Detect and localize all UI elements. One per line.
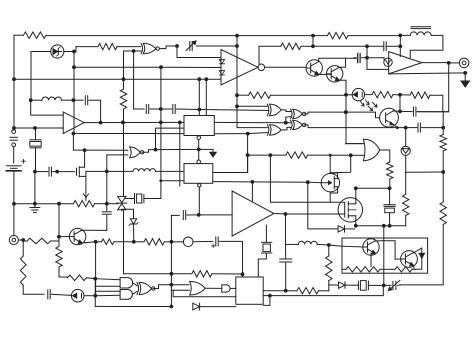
node — [463, 71, 467, 75]
wire — [57, 171, 74, 173]
node — [306, 180, 310, 184]
wire — [13, 204, 15, 236]
wire — [371, 253, 376, 266]
wire — [96, 241, 102, 243]
resistor R18 — [68, 275, 87, 281]
node — [72, 132, 76, 136]
node — [94, 240, 98, 244]
wire — [361, 57, 367, 59]
node — [382, 224, 386, 228]
wire — [405, 155, 407, 172]
wire — [337, 173, 339, 179]
node — [382, 284, 386, 288]
node — [398, 34, 402, 38]
wire — [14, 34, 24, 36]
wire — [339, 58, 345, 67]
node — [311, 34, 315, 38]
wire — [345, 228, 355, 230]
gate U8 xor — [270, 104, 282, 116]
ic U19 — [236, 277, 263, 304]
node — [159, 107, 163, 111]
wire — [304, 112, 345, 114]
wire — [170, 242, 172, 307]
ground GND1 — [464, 73, 466, 81]
wire — [282, 127, 291, 129]
inductor L5 — [298, 241, 317, 244]
wire — [51, 294, 71, 295]
wire — [449, 62, 460, 64]
gate U9 xor — [270, 125, 282, 135]
node — [344, 110, 348, 114]
node — [235, 44, 239, 48]
wire — [214, 133, 248, 135]
wire — [393, 94, 400, 96]
wire — [399, 35, 401, 46]
wire — [346, 94, 352, 96]
capacitor C11 — [417, 123, 419, 132]
resistor R7 — [73, 201, 94, 207]
wire — [355, 199, 357, 204]
wire — [171, 273, 191, 275]
wire — [79, 171, 86, 176]
wire — [58, 237, 60, 241]
wire — [133, 283, 137, 286]
node — [197, 108, 201, 112]
resistor R5 — [372, 91, 393, 97]
diac D4 — [118, 196, 126, 209]
capacitor C7 — [48, 167, 50, 176]
node — [121, 121, 125, 125]
wire — [123, 211, 125, 274]
wire — [376, 241, 396, 259]
wire — [84, 295, 95, 297]
wire — [133, 291, 137, 294]
wire — [236, 106, 238, 127]
node — [284, 212, 288, 216]
wire — [339, 80, 346, 95]
wire — [198, 135, 200, 137]
diode D11 — [339, 282, 345, 288]
scr D3 — [401, 146, 410, 155]
wire — [312, 36, 314, 47]
node — [251, 180, 255, 184]
wire — [31, 99, 42, 101]
wire — [389, 179, 391, 188]
node — [404, 126, 408, 130]
wire — [354, 57, 356, 59]
wire — [286, 122, 291, 124]
wire — [73, 133, 155, 135]
wire — [248, 133, 267, 134]
wire — [346, 143, 364, 145]
resistor R11 — [387, 162, 393, 179]
node — [159, 121, 163, 125]
resistor R22 — [326, 256, 332, 281]
wire — [400, 34, 410, 36]
wire — [400, 110, 412, 112]
node — [21, 238, 25, 242]
node — [441, 170, 445, 174]
wire — [205, 79, 207, 115]
wire — [173, 290, 236, 296]
wire — [85, 198, 87, 201]
wire — [31, 100, 64, 115]
ic box U20 — [342, 238, 428, 273]
crystal X4 — [262, 241, 272, 243]
resistor R3 — [281, 43, 301, 49]
wire — [126, 198, 135, 200]
node — [72, 98, 76, 102]
node — [105, 202, 109, 206]
node — [33, 126, 37, 130]
mosfet Q7 — [338, 198, 362, 222]
wire — [252, 181, 307, 183]
wire — [313, 35, 328, 37]
wire — [107, 154, 128, 156]
transistor Q2 — [327, 66, 343, 82]
connector J1 — [459, 58, 469, 68]
wire — [406, 171, 444, 173]
node — [246, 153, 250, 157]
wire — [367, 57, 384, 59]
node — [122, 77, 126, 81]
wire — [59, 267, 68, 277]
wire — [161, 108, 172, 110]
node — [388, 186, 392, 190]
led D7 — [71, 289, 84, 302]
capacitor C5 — [413, 107, 415, 116]
wire — [156, 128, 185, 150]
wire — [84, 121, 184, 123]
node — [175, 44, 179, 48]
pin — [198, 184, 201, 187]
diode D6 — [338, 226, 344, 232]
wire — [31, 51, 51, 53]
wire — [13, 171, 15, 204]
resistor R23 — [346, 267, 380, 272]
wire — [85, 149, 128, 151]
wire — [82, 229, 107, 231]
wire — [355, 188, 357, 199]
crystal X2 — [134, 194, 136, 204]
capacitor C14 — [47, 290, 49, 299]
wire — [346, 143, 363, 145]
wire — [64, 51, 74, 53]
wire — [72, 134, 74, 151]
wire — [237, 105, 267, 107]
wire — [34, 172, 36, 204]
resistor R25 — [249, 92, 271, 98]
ground GND2 — [34, 204, 36, 208]
wire — [58, 204, 60, 247]
diac D1 — [51, 45, 64, 58]
wire — [319, 73, 332, 75]
wire — [313, 45, 367, 47]
meter M1 — [183, 237, 193, 247]
wire — [123, 79, 125, 89]
node — [398, 110, 402, 114]
node — [388, 224, 392, 228]
wire — [337, 187, 339, 193]
resistor R19 — [20, 256, 26, 285]
wire — [14, 127, 63, 129]
node — [105, 170, 109, 174]
wire — [345, 95, 347, 144]
node — [197, 213, 201, 217]
node — [57, 235, 61, 239]
wire — [213, 181, 253, 183]
wire — [35, 171, 48, 173]
diode D8 — [193, 303, 200, 310]
or U12 — [363, 139, 379, 160]
wire — [142, 150, 155, 153]
node — [447, 61, 451, 65]
wire — [95, 203, 107, 205]
node — [398, 93, 402, 97]
wire — [171, 214, 179, 216]
node — [93, 294, 97, 298]
node — [354, 224, 358, 228]
wire — [319, 58, 346, 61]
wire — [442, 128, 444, 135]
wire — [383, 226, 385, 241]
node — [72, 65, 76, 69]
arrow — [83, 193, 88, 198]
wire — [384, 284, 391, 286]
wire — [161, 180, 184, 182]
wire — [264, 296, 270, 306]
wire — [351, 154, 364, 156]
wire — [117, 46, 140, 48]
capacitor C13 — [182, 211, 184, 220]
resistor R24 — [395, 267, 412, 272]
wire — [286, 243, 299, 245]
wire — [237, 94, 249, 96]
battery B1 — [6, 165, 21, 167]
wire — [355, 216, 357, 226]
resistor R6 — [410, 92, 430, 98]
ic U7 — [184, 164, 213, 184]
node — [241, 272, 245, 276]
node — [204, 77, 208, 81]
wire — [95, 279, 120, 280]
node — [235, 34, 239, 38]
wire — [74, 66, 161, 68]
wire — [187, 214, 199, 216]
wire — [248, 154, 271, 156]
wire — [123, 122, 125, 195]
wire — [170, 215, 172, 241]
node — [354, 186, 358, 190]
wire — [153, 285, 171, 289]
node — [132, 49, 136, 53]
wire — [346, 112, 380, 118]
node — [12, 77, 16, 81]
wire — [156, 148, 199, 150]
node — [235, 93, 239, 97]
node — [132, 240, 136, 244]
wire — [270, 285, 383, 295]
capacitor C15 — [280, 258, 292, 260]
wire — [258, 253, 266, 277]
wire — [160, 46, 177, 49]
wire — [197, 45, 238, 47]
wire — [412, 258, 422, 269]
wire — [134, 50, 141, 52]
wire — [107, 203, 118, 205]
resistor R13 — [144, 239, 164, 245]
resistor R20 — [192, 271, 212, 277]
wire — [198, 149, 200, 160]
node — [170, 240, 174, 244]
wire — [123, 195, 125, 198]
wire — [200, 306, 236, 308]
node — [327, 243, 331, 247]
capacitor C3 — [357, 53, 359, 62]
node — [170, 272, 174, 276]
wire — [59, 236, 69, 238]
wire — [106, 155, 108, 211]
node — [29, 98, 33, 102]
wire — [14, 78, 221, 80]
node — [349, 153, 353, 157]
wire — [259, 46, 281, 64]
transistor Q5 — [69, 228, 85, 244]
wire — [89, 100, 101, 122]
wire — [308, 182, 338, 229]
capacitor C6 — [84, 96, 86, 105]
gate U5 nor — [130, 147, 141, 158]
node — [159, 65, 163, 69]
wire — [179, 122, 181, 186]
wire — [73, 99, 83, 101]
wire — [442, 172, 444, 202]
wire — [73, 52, 75, 68]
wire — [22, 240, 24, 256]
node — [441, 126, 445, 130]
wire — [304, 125, 405, 128]
gate U11 xnor — [293, 120, 303, 129]
wire — [13, 128, 15, 130]
wire — [380, 150, 390, 162]
wire — [95, 305, 171, 307]
crystal X5 — [357, 281, 359, 290]
resistor R1 — [24, 32, 47, 38]
mosfet Q3 — [76, 168, 78, 175]
wire — [13, 35, 15, 128]
wire — [366, 46, 368, 57]
gate U10 xnor — [293, 109, 303, 118]
inductor L3 — [42, 97, 62, 100]
wire — [270, 154, 286, 156]
node — [99, 121, 103, 125]
wire — [237, 127, 267, 129]
wire — [263, 295, 270, 297]
wire — [356, 225, 406, 227]
node — [72, 50, 76, 54]
wire — [144, 198, 161, 200]
node — [93, 277, 97, 281]
wire — [274, 213, 286, 216]
wire — [30, 52, 32, 101]
wire — [171, 241, 183, 243]
wire — [79, 150, 84, 167]
wire — [365, 94, 372, 96]
arrow — [199, 148, 213, 150]
wire — [251, 182, 253, 201]
capacitor C9 — [145, 105, 147, 114]
node — [396, 126, 399, 129]
node — [246, 132, 250, 136]
wire — [414, 248, 422, 253]
wire — [367, 58, 389, 70]
wire — [214, 121, 285, 123]
wire — [328, 245, 330, 256]
wire — [368, 284, 383, 286]
opamp U13 — [232, 191, 274, 236]
wire — [285, 117, 287, 123]
capacitor C8 — [102, 211, 111, 213]
or U17 — [190, 281, 206, 295]
resistor R8 — [120, 89, 126, 109]
wire — [342, 268, 346, 270]
wire — [74, 51, 76, 53]
wire — [330, 155, 351, 173]
wire — [301, 45, 313, 47]
transistor Q9 — [401, 251, 418, 268]
wire — [23, 240, 27, 241]
wire — [236, 36, 238, 107]
wire — [410, 35, 443, 57]
capacitor C1 — [189, 42, 191, 51]
wire — [150, 108, 161, 110]
node — [33, 170, 37, 174]
wire — [107, 170, 133, 172]
node — [159, 179, 162, 182]
zener D10 — [419, 252, 425, 254]
wire — [393, 125, 397, 128]
node — [311, 44, 315, 48]
node — [344, 110, 348, 114]
wire — [356, 187, 390, 189]
capacitor C12 — [215, 237, 217, 246]
wire — [400, 94, 410, 96]
opamp U2 — [221, 50, 258, 86]
wire — [205, 287, 222, 289]
gate U16 xnor — [139, 282, 151, 294]
transistor Q8 — [363, 239, 379, 255]
wire — [317, 243, 329, 246]
node — [55, 170, 59, 174]
capacitor C2 — [383, 42, 385, 51]
wire — [265, 225, 267, 242]
wire — [124, 50, 134, 52]
node — [121, 121, 125, 125]
node — [398, 44, 402, 48]
connector J3 — [9, 235, 18, 244]
wire — [286, 213, 345, 215]
wire — [389, 188, 391, 204]
wire — [405, 128, 407, 147]
wire — [219, 241, 242, 277]
resistor R2 — [98, 43, 117, 49]
wire — [265, 66, 306, 68]
node — [12, 126, 16, 130]
resistor R21 — [297, 288, 319, 294]
wire — [405, 172, 407, 194]
node — [365, 56, 369, 60]
resistor R10 — [440, 135, 446, 152]
